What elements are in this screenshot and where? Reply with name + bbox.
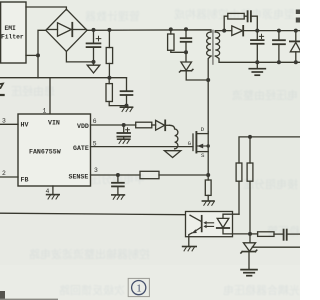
resistor R2 bbox=[106, 78, 127, 106]
svg-text:S: S bbox=[201, 152, 205, 159]
startup resistor R1 bbox=[106, 30, 112, 78]
svg-text:VDD: VDD bbox=[77, 123, 89, 130]
node zener bottom bbox=[294, 60, 298, 64]
drain-source vertical bbox=[207, 132, 209, 175]
svg-text:次级反馈回路: 次级反馈回路 bbox=[59, 283, 125, 297]
divider right resistor bbox=[247, 137, 253, 234]
wire HV pin bbox=[0, 123, 18, 125]
aux winding coil bbox=[170, 125, 178, 149]
svg-text:1: 1 bbox=[136, 283, 142, 295]
transformer primary bottom lead bbox=[208, 56, 211, 132]
ground (VDD cap, hatched) bbox=[118, 139, 130, 143]
VDD capacitor bbox=[117, 125, 130, 139]
svg-text:电压经由整流: 电压经由整流 bbox=[232, 88, 298, 102]
feedback top wire bbox=[239, 137, 300, 163]
wire SENSE bbox=[91, 174, 141, 176]
TL431 / zener shunt bbox=[241, 234, 257, 269]
node bulk-cap bottom bbox=[92, 60, 96, 64]
svg-text:1: 1 bbox=[43, 108, 47, 115]
ground (primary bulk, open triangle) bbox=[87, 62, 100, 73]
wire bridge left arm bbox=[38, 30, 46, 55]
IC U1 FAN6755W bbox=[2, 108, 98, 196]
long feedback wire bbox=[0, 213, 186, 215]
comp resistor bbox=[250, 232, 283, 237]
ground (sense cap, hatched) bbox=[112, 195, 125, 199]
svg-text:Filter: Filter bbox=[1, 34, 24, 41]
transformer T1 core bbox=[212, 31, 214, 65]
svg-text:D: D bbox=[201, 126, 205, 133]
clamp resistor bbox=[168, 29, 186, 52]
ref wire bbox=[252, 246, 300, 248]
svg-text:GATE: GATE bbox=[73, 145, 89, 152]
svg-text:光耦合器稳压电: 光耦合器稳压电 bbox=[223, 283, 300, 297]
node LED/TL431/comp bbox=[248, 232, 252, 236]
svg-text:EMI: EMI bbox=[5, 25, 17, 32]
output zener diode bbox=[290, 31, 301, 63]
node bus/R startup bbox=[107, 28, 111, 32]
node VDD cap bbox=[122, 123, 126, 127]
sense filter capacitor bbox=[112, 175, 124, 195]
snubber resistor bbox=[224, 13, 244, 30]
ground (aux, open triangle) bbox=[164, 151, 180, 158]
wire bridge negative to bulk cap bbox=[66, 52, 93, 62]
wire top AC bbox=[26, 7, 66, 10]
ground (pin4, hatched) bbox=[47, 195, 60, 199]
svg-text:VIN: VIN bbox=[48, 120, 60, 127]
node R1/R2/VIN bbox=[107, 76, 111, 80]
node cap2 top bbox=[277, 29, 281, 33]
svg-text:3: 3 bbox=[2, 118, 6, 125]
dc bus wire bbox=[87, 30, 211, 32]
page mark 1 bbox=[128, 278, 149, 296]
svg-text:FB: FB bbox=[21, 177, 29, 184]
node (AC junction) bbox=[36, 53, 40, 57]
node bus/bulk-cap bbox=[92, 28, 96, 32]
clamp capacitor bbox=[181, 29, 192, 52]
transformer secondary winding bbox=[215, 32, 219, 56]
node zener top bbox=[294, 29, 298, 33]
svg-text:接电阻分压: 接电阻分压 bbox=[243, 178, 298, 191]
transformer secondary bottom lead bbox=[215, 56, 300, 62]
transformer primary winding bbox=[207, 32, 211, 56]
clipped glyph marks left edge bbox=[0, 84, 3, 88]
svg-text:控制器输出整流滤波电路: 控制器输出整流滤波电路 bbox=[29, 247, 150, 261]
EMI filter block bbox=[1, 2, 26, 63]
wire VDD pin bbox=[91, 124, 136, 126]
capacitor (VIN filter) bbox=[121, 78, 133, 106]
node sense cap bbox=[116, 173, 120, 177]
clamp zener bbox=[180, 52, 209, 80]
node cap1 bottom bbox=[255, 60, 259, 64]
mosfet Q1 bbox=[193, 126, 210, 159]
svg-text:2: 2 bbox=[2, 170, 6, 177]
comp capacitor bbox=[284, 230, 300, 240]
wire pin4 bbox=[52, 186, 54, 194]
bulk capacitor bbox=[87, 30, 101, 62]
wire bottom AC bbox=[26, 54, 38, 56]
ground (VIN filter, hatched) bbox=[120, 106, 132, 112]
wire down from AC node to VIN line bbox=[37, 55, 39, 77]
wire GATE bbox=[91, 146, 194, 148]
svg-text:SENSE: SENSE bbox=[69, 174, 89, 181]
node cap/R2 bottom bbox=[125, 104, 129, 108]
node divider top bbox=[248, 135, 252, 139]
scan border artifacts bbox=[296, 10, 300, 15]
output electrolytic cap1 bbox=[251, 31, 264, 63]
node rect out / cap1 bbox=[255, 29, 259, 33]
node cap2 bottom bbox=[277, 60, 281, 64]
wire VIN pin bbox=[49, 78, 51, 114]
svg-text:患由经压: 患由经压 bbox=[11, 84, 55, 98]
node sense/source bbox=[206, 173, 210, 177]
node bus/clamp C bbox=[184, 27, 188, 31]
bridge rectifier BD1 bbox=[46, 9, 87, 51]
node clamp RC bbox=[184, 50, 188, 54]
svg-text:6: 6 bbox=[93, 118, 97, 125]
ground (shunt, hatched) bbox=[202, 201, 214, 205]
VDD series resistor bbox=[136, 122, 152, 128]
sense shunt resistor bbox=[205, 175, 211, 201]
sense series resistor bbox=[140, 171, 208, 178]
svg-text:FAN6755W: FAN6755W bbox=[29, 149, 61, 156]
output cap2 bbox=[273, 31, 285, 63]
ground (TL431 earth) bbox=[241, 270, 257, 276]
svg-text:管理计数器: 管理计数器 bbox=[85, 9, 140, 23]
node clamp/drain bbox=[206, 78, 210, 82]
node bus/clamp R bbox=[169, 27, 173, 31]
ground (opto emitter, hatched) bbox=[183, 247, 197, 251]
secondary rectifier diode bbox=[232, 26, 300, 36]
snubber capacitor bbox=[244, 11, 257, 30]
ground (secondary earth) bbox=[249, 62, 265, 75]
aux diode bbox=[152, 120, 170, 130]
svg-text:3: 3 bbox=[94, 167, 98, 174]
svg-text:HV: HV bbox=[21, 122, 29, 129]
divider left resistor bbox=[236, 163, 242, 214]
transformer secondary top lead bbox=[215, 31, 232, 32]
optocoupler U2 bbox=[186, 212, 251, 247]
node snubber left tap bbox=[222, 29, 226, 33]
wire FB pin bbox=[0, 176, 18, 178]
